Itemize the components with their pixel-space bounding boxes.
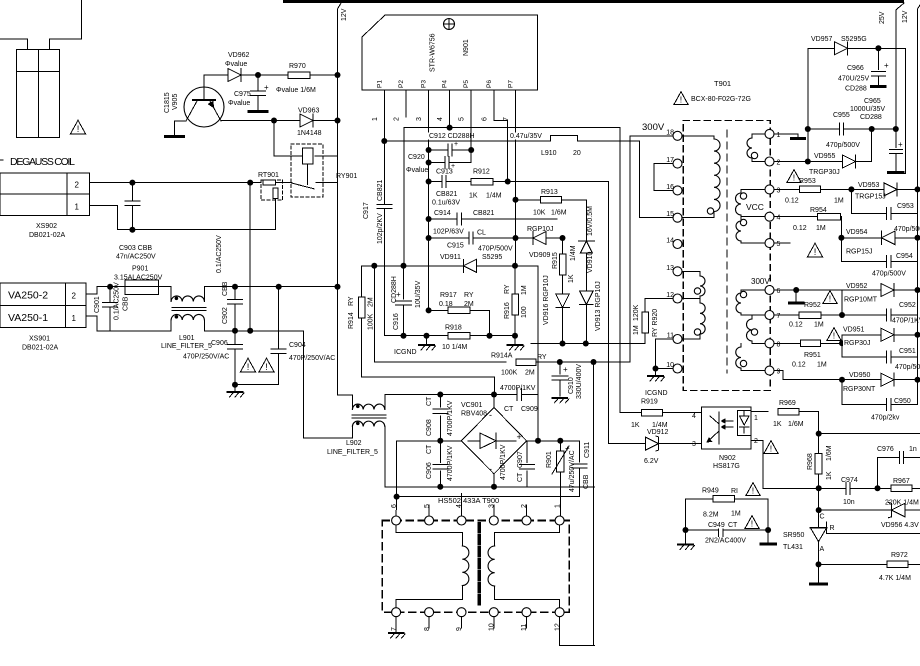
svg-text:P3: P3 <box>421 80 428 88</box>
junction <box>401 263 407 269</box>
wire VD957 feed <box>807 48 809 161</box>
svg-text:1N4148: 1N4148 <box>297 130 322 137</box>
junction <box>839 312 845 318</box>
svg-text:CL: CL <box>477 230 486 237</box>
svg-text:C917: C917 <box>363 202 370 219</box>
svg-text:2M: 2M <box>525 370 535 377</box>
svg-text:VD909: VD909 <box>529 252 551 259</box>
svg-text:VD954: VD954 <box>846 229 868 236</box>
wire R972 row <box>819 563 888 565</box>
svg-text:-: - <box>489 464 492 474</box>
junction <box>394 494 400 500</box>
T900 pin 10 <box>489 608 498 617</box>
wire relay coil left <box>273 121 275 157</box>
svg-text:1/6M: 1/6M <box>551 210 567 217</box>
capacitor C913 <box>429 181 442 183</box>
warning triangle <box>745 516 759 529</box>
core <box>352 414 386 416</box>
svg-text:8.2M: 8.2M <box>703 512 719 519</box>
svg-text:C966: C966 <box>847 65 864 72</box>
pin4 lead <box>449 90 451 128</box>
svg-text:V905: V905 <box>172 94 179 110</box>
wire <box>585 304 587 344</box>
svg-text:VC901: VC901 <box>461 402 483 409</box>
svg-text:RY: RY <box>537 354 547 361</box>
svg-text:P5: P5 <box>463 80 470 88</box>
svg-text:HS817G: HS817G <box>713 463 740 470</box>
wire live rail <box>204 286 337 288</box>
T900 pin 1 <box>555 516 564 525</box>
bridge diode symbol <box>468 440 480 442</box>
link pins 17-16 <box>654 163 673 165</box>
wire collector row <box>221 120 300 122</box>
core T901 <box>726 130 728 373</box>
svg-text:TL431: TL431 <box>783 544 803 551</box>
svg-text:VCC: VCC <box>746 202 764 212</box>
svg-text:0.12: 0.12 <box>792 362 806 369</box>
optocoupler N902 <box>701 407 751 449</box>
diode VD952 <box>881 284 894 297</box>
relay RY901 <box>291 144 323 197</box>
diode VD951 <box>842 334 881 336</box>
wire pin3 row <box>774 188 799 190</box>
T900 pin 6 <box>392 516 401 525</box>
svg-text:P1: P1 <box>376 80 383 88</box>
T901 winding 7-8 <box>751 315 753 319</box>
diode VD913 <box>580 291 594 305</box>
capacitor C951 <box>841 343 843 357</box>
node 12V <box>338 3 342 9</box>
svg-text:0.12: 0.12 <box>785 198 799 205</box>
wire C974 row <box>819 487 846 489</box>
svg-text:S5295: S5295 <box>482 254 502 261</box>
svg-text:+: + <box>563 365 568 374</box>
inductor L901 lower <box>170 320 172 331</box>
svg-text:8: 8 <box>777 341 781 348</box>
svg-text:VD957: VD957 <box>811 36 833 43</box>
wire <box>235 384 279 386</box>
T900 pin8 stub <box>428 617 430 628</box>
T900 pin 9 <box>457 608 466 617</box>
capacitor C912 <box>429 149 448 151</box>
diode VD954 <box>841 237 881 239</box>
svg-text:C975: C975 <box>234 91 251 98</box>
svg-text:10K: 10K <box>533 210 546 217</box>
resistor R954 <box>818 213 841 220</box>
wire <box>821 314 887 316</box>
svg-text:C901: C901 <box>94 296 101 313</box>
wire <box>848 47 906 49</box>
wire pin9 row <box>774 370 783 372</box>
svg-text:XS901: XS901 <box>29 336 50 343</box>
svg-text:13: 13 <box>666 265 674 272</box>
junction <box>560 235 566 241</box>
svg-text:C953: C953 <box>897 203 914 210</box>
svg-text:VD956 4.3V: VD956 4.3V <box>881 522 919 529</box>
svg-text:RY901: RY901 <box>336 173 357 180</box>
wire relay output drop <box>337 183 339 395</box>
svg-text:10: 10 <box>489 623 496 631</box>
wire feedback column a <box>608 182 610 444</box>
svg-text:16V/0.5M: 16V/0.5M <box>587 206 594 236</box>
capacitor C920 <box>429 162 445 164</box>
wire degauss pin2 line <box>90 182 261 184</box>
wire riser <box>841 290 843 315</box>
svg-text:4: 4 <box>456 504 463 508</box>
junction <box>765 527 771 533</box>
svg-text:4700P/1KV: 4700P/1KV <box>500 385 536 392</box>
svg-text:0.12: 0.12 <box>793 225 807 232</box>
svg-text:11: 11 <box>521 624 528 631</box>
wire riser <box>841 335 843 344</box>
svg-text:C907: C907 <box>517 451 524 468</box>
T901 pin1 ground <box>774 133 798 135</box>
resistor R949 <box>686 498 713 500</box>
svg-text:6: 6 <box>777 288 781 295</box>
wire to 12V rail <box>313 120 338 122</box>
svg-text:5: 5 <box>424 504 431 508</box>
wire bridge top rail <box>385 394 517 396</box>
T901 winding 4-5 <box>740 217 742 221</box>
T900 winding right <box>559 525 561 533</box>
T900 pin1 lead <box>559 515 561 517</box>
svg-text:R968: R968 <box>807 453 814 470</box>
junction <box>232 328 238 334</box>
svg-text:CT: CT <box>426 444 433 454</box>
wire emitter to ground <box>175 120 187 122</box>
svg-text:R: R <box>830 525 835 532</box>
power bus bar <box>283 0 904 3</box>
T901 pin 11 <box>673 335 682 344</box>
wire VD956 row <box>819 509 892 511</box>
junction <box>683 527 689 533</box>
svg-text:8: 8 <box>424 627 431 631</box>
svg-text:470P/500V: 470P/500V <box>478 246 513 253</box>
svg-text:C911: C911 <box>584 442 591 458</box>
svg-text:+: + <box>884 61 889 70</box>
wire <box>818 474 820 528</box>
warning triangle <box>827 328 841 341</box>
svg-text:VD950: VD950 <box>849 372 871 379</box>
svg-text:4700P/1KV: 4700P/1KV <box>500 444 507 480</box>
svg-text:1/6M: 1/6M <box>788 421 804 428</box>
svg-text:!: ! <box>265 362 268 372</box>
svg-text:R949: R949 <box>702 488 719 495</box>
wire pin4 row <box>774 216 817 218</box>
svg-text:P2: P2 <box>398 80 405 88</box>
junction <box>816 431 822 437</box>
junction <box>232 284 238 290</box>
svg-text:0.47u/35V: 0.47u/35V <box>510 133 542 140</box>
resistor R970 <box>288 72 310 79</box>
svg-text:CD288: CD288 <box>860 114 882 121</box>
wire relay coil right <box>315 155 338 157</box>
svg-text:RBV408: RBV408 <box>461 411 487 418</box>
capacitor C902 <box>234 287 236 300</box>
svg-text:470p/500V: 470p/500V <box>872 271 906 278</box>
resistor R916 <box>514 266 516 294</box>
svg-text:R916: R916 <box>504 302 511 319</box>
svg-text:1M: 1M <box>633 325 640 335</box>
T900 pin5 stub <box>428 505 430 516</box>
wire cathode rail <box>531 343 645 345</box>
svg-text:7: 7 <box>391 627 398 631</box>
junction <box>915 186 920 192</box>
capacitor C976 <box>898 452 900 464</box>
wire rail 433 <box>819 433 920 435</box>
svg-text:1M: 1M <box>521 285 528 295</box>
svg-text:VD911: VD911 <box>440 254 461 261</box>
svg-text:5: 5 <box>459 117 466 121</box>
capacitor C955 <box>838 123 840 135</box>
junction <box>583 341 589 347</box>
junction <box>401 333 407 339</box>
svg-text:R952: R952 <box>804 302 821 309</box>
svg-text:CB821: CB821 <box>377 179 384 201</box>
T901 pin 15 <box>673 213 682 222</box>
wire pin6 riser <box>396 441 398 497</box>
T901 winding 12-11 <box>699 299 701 304</box>
junction <box>335 284 341 290</box>
ground ICGND2 <box>655 369 657 376</box>
junction <box>915 235 920 241</box>
svg-text:VD952: VD952 <box>846 283 868 290</box>
svg-text:ICGND: ICGND <box>645 390 668 397</box>
wire <box>562 307 564 344</box>
capacitor C916 <box>403 266 405 299</box>
T901 winding 13-12 <box>682 270 700 272</box>
svg-text:VD916 RGP10J: VD916 RGP10J <box>543 275 550 325</box>
zener VD910 <box>578 240 594 242</box>
wire pin6 row <box>774 289 881 291</box>
junction <box>487 333 493 339</box>
svg-text:RY: RY <box>464 292 474 299</box>
junction <box>512 333 518 339</box>
svg-text:1K: 1K <box>469 193 478 200</box>
label VD954 <box>845 228 865 235</box>
wire ICGND rail <box>384 335 448 337</box>
wire VD957 row <box>808 47 835 49</box>
svg-text:470p/500: 470p/500 <box>895 364 920 371</box>
wire 12V right rail <box>918 5 920 9</box>
junction <box>491 484 497 490</box>
wire drop to C916 rail <box>403 128 405 266</box>
svg-text:470U/25V: 470U/25V <box>838 76 869 83</box>
T901 pin 9 <box>765 366 774 375</box>
wire R914A feed <box>373 266 375 362</box>
svg-text:LINE_FILTER_5: LINE_FILTER_5 <box>161 343 212 350</box>
junction <box>491 392 497 398</box>
svg-text:0.12: 0.12 <box>789 322 803 329</box>
wire 25V rail <box>896 3 904 10</box>
svg-text:7: 7 <box>777 313 781 320</box>
capacitor C904 <box>278 287 280 349</box>
wire <box>821 188 885 190</box>
label T900 <box>437 497 501 505</box>
svg-text:!: ! <box>814 247 817 257</box>
svg-text:C914: C914 <box>434 210 451 217</box>
svg-text:C951: C951 <box>899 348 916 355</box>
wire T900 return <box>560 645 595 647</box>
wire C976 branch <box>877 458 879 489</box>
wire R913 row <box>516 199 541 201</box>
T900 pin 4 <box>457 516 466 525</box>
wire pin1 rail <box>384 140 550 142</box>
ground C949 right <box>767 530 769 543</box>
wire <box>585 253 587 291</box>
capacitor C952 <box>886 309 888 321</box>
svg-text:2: 2 <box>521 504 528 508</box>
svg-text:3.15ALAC250V: 3.15ALAC250V <box>114 275 163 282</box>
svg-text:C915: C915 <box>447 243 464 250</box>
junction <box>255 72 261 78</box>
resistor R969 <box>778 408 799 415</box>
pin1 lead <box>383 90 385 141</box>
transformer T901 box <box>683 121 770 391</box>
svg-text:47n/AC250V: 47n/AC250V <box>116 254 156 261</box>
junction <box>816 507 822 513</box>
wire R969 row <box>751 411 768 413</box>
transistor V905 <box>184 87 224 127</box>
svg-text:R919: R919 <box>641 399 658 406</box>
wire <box>908 563 920 565</box>
svg-text:A: A <box>820 546 825 553</box>
svg-text:R914A: R914A <box>491 353 513 360</box>
T901 winding 3-4 <box>741 188 765 190</box>
degauss coil (posistor block) <box>16 49 59 137</box>
wire R919 row <box>620 412 642 414</box>
svg-text:!: ! <box>77 124 80 134</box>
svg-text:VD912: VD912 <box>647 429 669 436</box>
capacitor C910 <box>559 362 561 374</box>
svg-text:CBB: CBB <box>222 281 229 296</box>
zener VD956 <box>891 503 905 516</box>
svg-text:330U/400V: 330U/400V <box>576 364 583 399</box>
T901 pin 17 <box>673 159 682 168</box>
svg-text:C949: C949 <box>708 522 725 529</box>
svg-text:STR-W6756: STR-W6756 <box>430 33 437 72</box>
svg-text:47u/250V/AC: 47u/250V/AC <box>569 450 576 492</box>
svg-text:VA250-2: VA250-2 <box>8 290 48 302</box>
junction <box>424 333 430 339</box>
svg-text:17: 17 <box>666 157 674 164</box>
fuse P901 <box>125 280 159 294</box>
wire <box>895 379 918 381</box>
wire degauss to lower rail <box>249 183 251 331</box>
svg-text:5: 5 <box>777 241 781 248</box>
svg-text:SR950: SR950 <box>783 532 805 539</box>
svg-text:LINE_FILTER_5: LINE_FILTER_5 <box>327 449 378 456</box>
diode VD957 <box>835 42 848 55</box>
wire anode <box>818 542 820 583</box>
core <box>172 307 206 309</box>
wire <box>840 216 843 218</box>
T901 pin 2 <box>765 157 774 166</box>
T901 pin 14 <box>673 240 682 249</box>
svg-text:12V: 12V <box>902 10 909 23</box>
T900 pin 11 <box>522 608 531 617</box>
diode VD963 <box>300 114 313 127</box>
warning triangle <box>674 92 688 105</box>
svg-text:0.1u/63V: 0.1u/63V <box>432 200 460 207</box>
junction <box>805 159 811 165</box>
T901 pin5 stub <box>774 242 790 244</box>
junction <box>468 147 474 153</box>
T900 pin9 stub <box>461 617 463 628</box>
svg-text:1000U/35V: 1000U/35V <box>850 106 885 113</box>
wire <box>905 509 920 511</box>
svg-text:VD953: VD953 <box>858 182 880 189</box>
wire T901 pin10 <box>656 368 674 370</box>
warning triangle <box>241 358 256 372</box>
svg-text:1/4M: 1/4M <box>570 245 577 261</box>
resistor R914 <box>361 266 363 297</box>
capacitor C914 <box>429 218 457 220</box>
junction <box>875 485 881 491</box>
svg-text:DB021-02A: DB021-02A <box>22 345 59 352</box>
junction <box>426 160 432 166</box>
svg-text:0.1/AC250V: 0.1/AC250V <box>216 235 223 273</box>
svg-text:18: 18 <box>666 129 674 136</box>
svg-text:DEGAUSS COIL: DEGAUSS COIL <box>10 156 75 168</box>
wire C955 rail <box>808 128 840 130</box>
capacitor C906 <box>234 331 236 345</box>
wire drop to + rail <box>537 266 539 441</box>
svg-text:C950: C950 <box>894 398 911 405</box>
warning triangle <box>808 243 823 257</box>
warning triangle <box>823 291 837 304</box>
warning triangle <box>787 170 801 183</box>
resistor R919 <box>642 409 663 416</box>
svg-text:C906: C906 <box>211 340 228 347</box>
resistor R952 <box>799 312 821 319</box>
svg-text:XS902: XS902 <box>36 223 57 230</box>
svg-text:C906: C906 <box>426 462 433 479</box>
T901 pin 8 <box>765 339 774 348</box>
wire T901 pin11 <box>656 338 674 340</box>
capacitor C909 <box>516 389 518 401</box>
diode VD962 <box>228 69 241 82</box>
resistor R912 <box>471 178 493 185</box>
T900 pin6 stub <box>395 497 398 516</box>
junction <box>805 126 811 132</box>
svg-text:CD288: CD288 <box>845 86 867 93</box>
svg-text:VD951: VD951 <box>843 327 865 334</box>
svg-text:1K: 1K <box>631 422 640 429</box>
svg-text:470p/2kv: 470p/2kv <box>871 415 900 422</box>
junction <box>839 377 845 383</box>
capacitor C915 CL <box>429 237 469 239</box>
svg-text:RGP10MT: RGP10MT <box>844 297 878 304</box>
svg-text:R918: R918 <box>445 325 462 332</box>
T900 pin 5 <box>425 516 434 525</box>
svg-text:CBB: CBB <box>123 296 130 311</box>
svg-text:12V: 12V <box>341 8 348 21</box>
svg-text:3: 3 <box>777 187 781 194</box>
svg-text:15: 15 <box>666 211 674 218</box>
T901 pin 4 <box>765 212 774 221</box>
junction <box>653 366 659 372</box>
wire <box>562 199 587 201</box>
pin2 lead <box>405 90 407 117</box>
svg-text:+: + <box>454 141 458 148</box>
wire <box>663 412 702 414</box>
wire + rail <box>538 440 579 442</box>
svg-text:!: ! <box>793 172 795 182</box>
junction <box>839 340 845 346</box>
wire bridge bottom rail <box>385 486 595 488</box>
svg-text:1: 1 <box>75 203 80 212</box>
